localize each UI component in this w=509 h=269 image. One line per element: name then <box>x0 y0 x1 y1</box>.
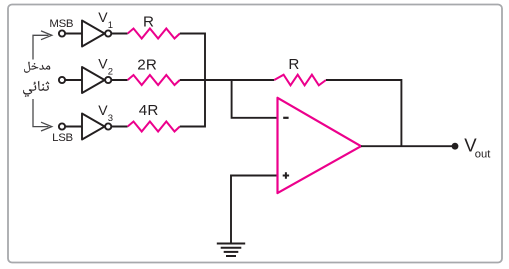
wire V3 to resistor <box>111 126 127 128</box>
svg-text:R: R <box>143 14 154 31</box>
node V1 circle <box>105 30 111 36</box>
wire V2 to resistor <box>111 79 127 81</box>
buffer V3 <box>82 114 105 140</box>
wire input to buffer V3 <box>65 126 82 128</box>
arrowhead to LSB <box>41 122 52 131</box>
svg-text:out: out <box>475 148 491 160</box>
buffer V1 <box>82 21 105 47</box>
wire op-amp output <box>361 145 455 147</box>
wire non-inverting input <box>231 176 278 244</box>
node V3 circle <box>105 123 111 129</box>
input terminal circle row 1 <box>59 30 65 36</box>
resistor R (feedback) <box>274 75 326 86</box>
svg-text:V: V <box>98 55 108 71</box>
resistor R <box>128 29 180 39</box>
input terminal circle row 3 <box>59 123 65 129</box>
op-amp inverting input marker (-) <box>283 117 288 119</box>
buffer V2 <box>82 67 105 93</box>
resistor 4R <box>128 122 180 132</box>
svg-text:V: V <box>98 102 108 118</box>
svg-text:V: V <box>98 9 108 25</box>
wire feedback R to output node <box>326 80 401 146</box>
svg-text:3: 3 <box>108 113 113 124</box>
label "مدخل" (input) <box>24 62 50 73</box>
binary input bracket line <box>33 35 49 126</box>
wire 2R to summing node <box>180 79 274 81</box>
svg-text:LSB: LSB <box>52 132 73 144</box>
svg-text:MSB: MSB <box>49 18 73 30</box>
wire input to buffer V2 <box>65 79 82 81</box>
op-amp non-inverting input marker (+) <box>283 172 289 178</box>
svg-text:4R: 4R <box>139 102 159 119</box>
input terminal circle row 2 <box>59 77 65 83</box>
svg-text:R: R <box>288 56 299 73</box>
ground <box>217 244 245 257</box>
svg-text:2R: 2R <box>137 57 157 74</box>
output terminal dot <box>452 143 459 150</box>
wire input to buffer V1 <box>65 33 82 35</box>
wire R to bus corner <box>180 34 205 127</box>
arrowhead to MSB <box>41 31 52 40</box>
wire summing node down to inverting input <box>232 80 278 118</box>
label "ثنائي" (binary) <box>23 81 49 97</box>
resistor 2R <box>128 75 180 85</box>
wire V1 to resistor <box>111 33 127 35</box>
svg-text:2: 2 <box>108 67 113 78</box>
node V2 circle <box>105 77 111 83</box>
op-amp U1 <box>278 98 362 193</box>
svg-text:1: 1 <box>108 20 113 31</box>
